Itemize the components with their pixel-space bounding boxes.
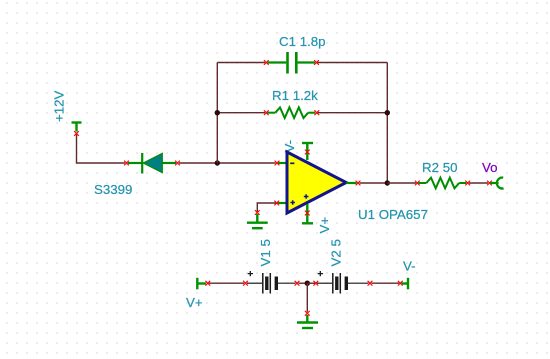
wire right rail vertical <box>386 63 388 184</box>
op-amp triangle body <box>287 152 346 213</box>
V+ power pin <box>302 204 313 223</box>
svg-text:V-: V- <box>282 140 297 153</box>
battery V2 <box>313 271 372 294</box>
battery V1 <box>243 271 299 294</box>
capacitor C1 <box>264 52 319 74</box>
wire R1 row left <box>217 112 265 114</box>
svg-text:U1 OPA657: U1 OPA657 <box>358 207 428 222</box>
svg-text:V2 5: V2 5 <box>328 239 343 266</box>
wire +12V to photodiode <box>77 135 126 164</box>
minus input mark <box>290 162 294 164</box>
inverting input stub <box>278 162 286 164</box>
wire C1 to right rail <box>318 62 388 64</box>
power terminal +12V <box>72 123 82 132</box>
output stub <box>346 182 356 184</box>
svg-text:R1 1.2k: R1 1.2k <box>272 88 318 103</box>
ground at supply center <box>297 311 318 328</box>
plus supply mark <box>304 194 309 199</box>
svg-text:V-: V- <box>403 259 416 274</box>
svg-text:S3399: S3399 <box>94 182 132 197</box>
wire R2 to output port <box>469 182 488 184</box>
wire photodiode to U1 inverting input <box>179 162 276 164</box>
svg-text:+12V: +12V <box>52 90 67 122</box>
wire center junction to V2 <box>308 282 315 284</box>
wire V1 to center junction <box>299 282 307 284</box>
wire R1 to right rail <box>318 112 388 114</box>
wire U1 output to junction <box>360 182 388 184</box>
V- power pin <box>302 143 313 160</box>
junction battery center <box>305 281 310 286</box>
svg-text:V+: V+ <box>317 217 332 234</box>
svg-text:Vo: Vo <box>482 160 498 175</box>
wire left rail vertical <box>216 63 218 164</box>
junction node: left rail at inverting input <box>215 160 220 165</box>
wire V2 to V- terminal <box>372 282 400 284</box>
svg-text:C1 1.8p: C1 1.8p <box>279 34 326 49</box>
noninverting input stub <box>278 202 287 204</box>
terminal V+ (bottom left) <box>197 278 210 290</box>
wire center junction to ground <box>306 283 308 312</box>
svg-text:V1 5: V1 5 <box>258 239 273 266</box>
resistor R1 <box>264 107 319 118</box>
wire junction to R2 <box>387 182 416 184</box>
svg-text:V+: V+ <box>186 295 203 310</box>
svg-text:R2 50: R2 50 <box>422 160 457 175</box>
photodiode S3399 <box>124 153 180 174</box>
resistor R2 <box>415 178 470 189</box>
output port Vo <box>487 178 504 189</box>
plus input mark <box>290 200 295 205</box>
terminal V- (bottom right) <box>398 278 408 290</box>
op-amp U1 <box>274 140 360 234</box>
junction R1 left <box>215 110 220 115</box>
wire V+ terminal to battery V1 <box>209 282 244 284</box>
wire C1 row left <box>217 62 265 64</box>
ground at U1 + input <box>247 210 268 228</box>
junction output node <box>385 180 390 185</box>
wire noninverting input to ground <box>257 203 276 212</box>
junction R1 right <box>385 110 390 115</box>
pin x of +12V terminal <box>74 131 79 136</box>
